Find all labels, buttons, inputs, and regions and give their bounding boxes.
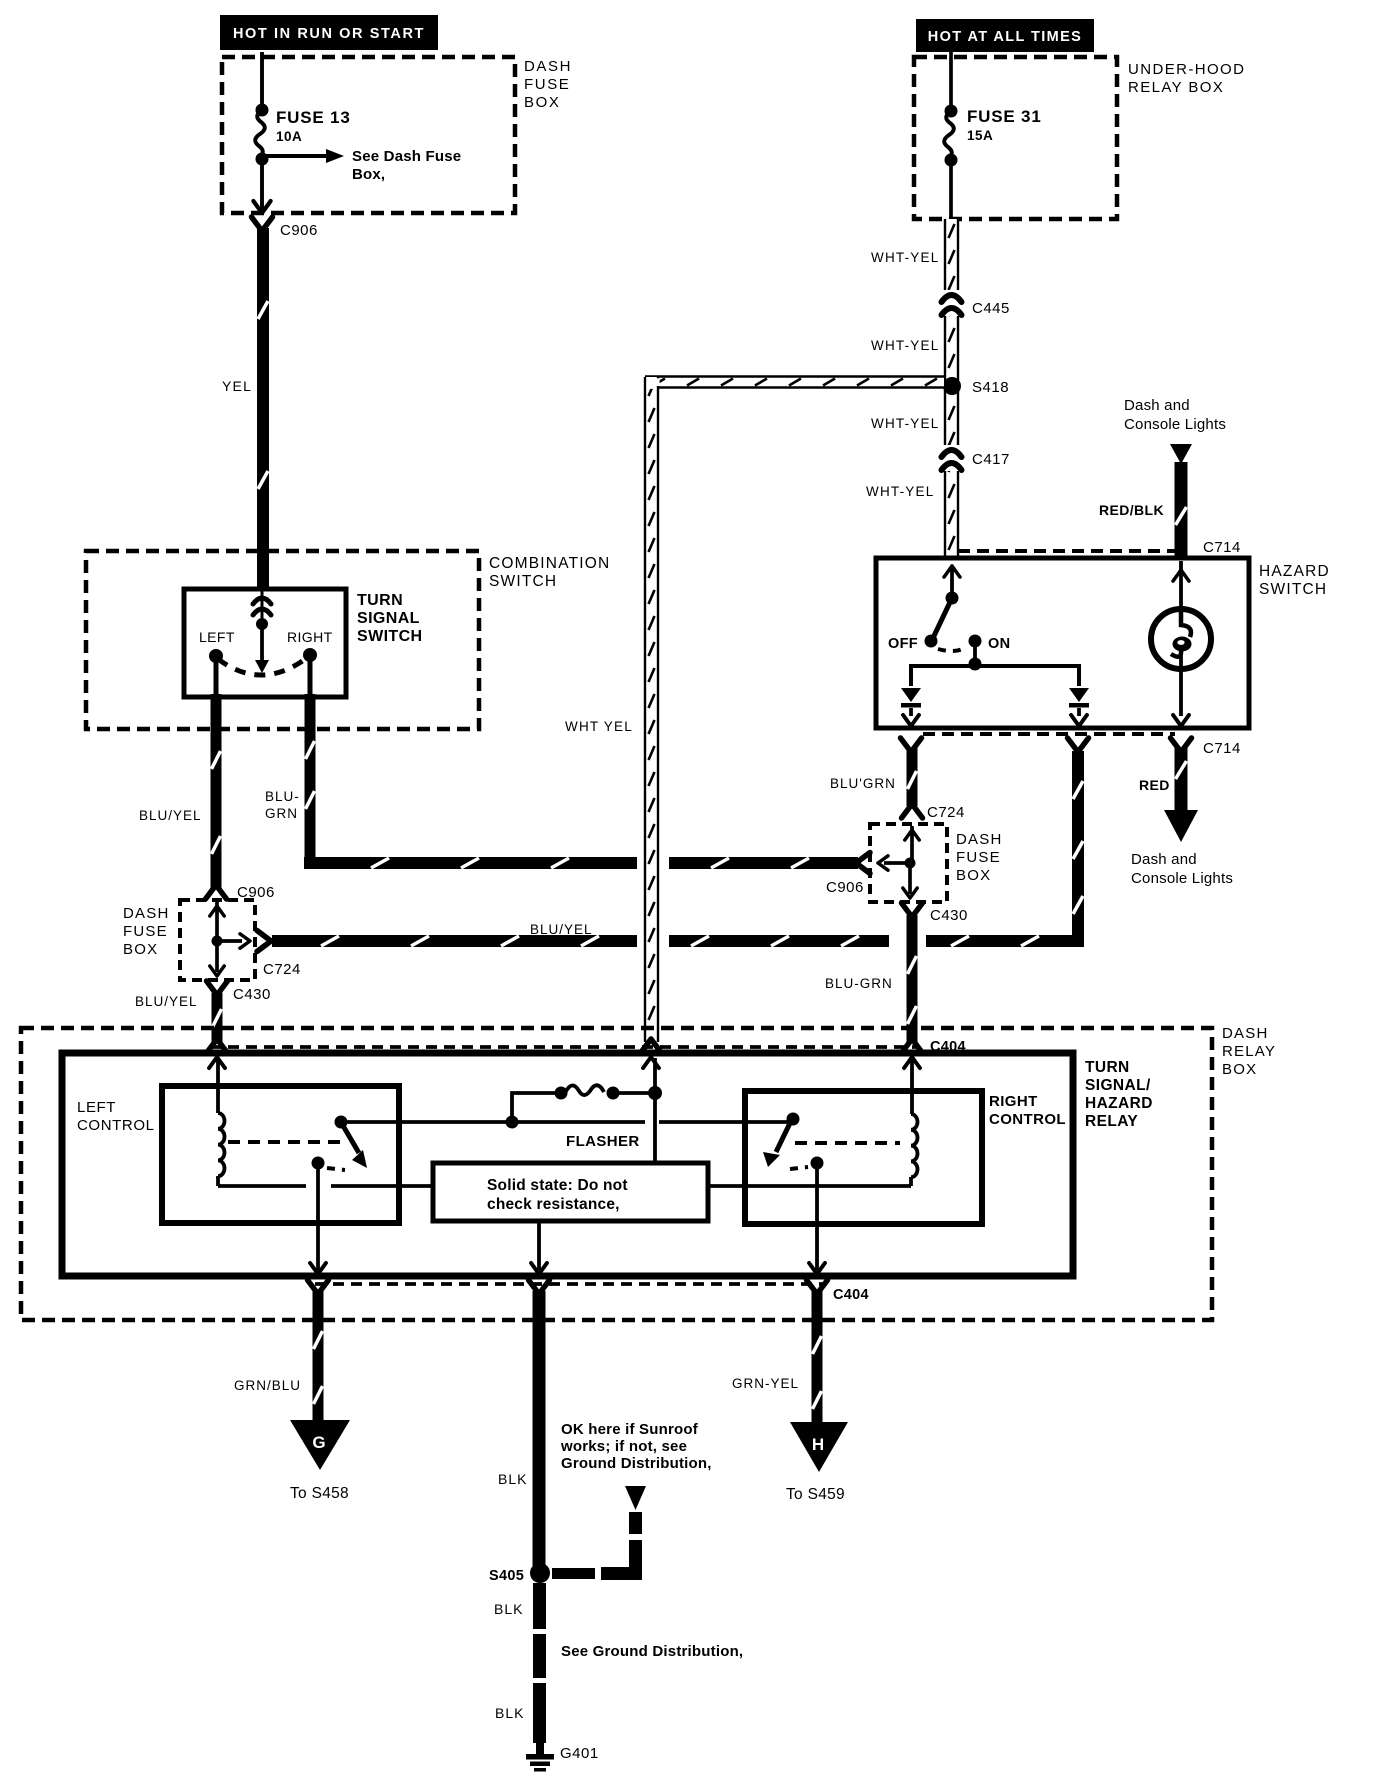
wiper arm [260, 624, 264, 662]
wire left output [316, 1163, 320, 1270]
svg-text:BLU/YEL: BLU/YEL [530, 922, 593, 937]
svg-text:ON: ON [988, 636, 1010, 652]
svg-text:DASH: DASH [1222, 1025, 1268, 1042]
svg-text:RIGHT: RIGHT [287, 629, 333, 645]
svg-text:BLK: BLK [498, 1471, 527, 1487]
left relay coil [216, 1058, 220, 1113]
right armature [787, 1113, 800, 1126]
svg-text:HAZARD: HAZARD [1085, 1095, 1153, 1112]
solid state box [433, 1163, 708, 1221]
connector C906 (right box) [856, 853, 870, 874]
connector C430 [207, 981, 228, 995]
svg-text:C445: C445 [972, 300, 1010, 317]
svg-text:10A: 10A [276, 129, 302, 144]
svg-text:TURN: TURN [357, 592, 403, 609]
svg-text:WHT-YEL: WHT-YEL [866, 484, 934, 499]
svg-text:FLASHER: FLASHER [566, 1133, 640, 1150]
dash relay box (dashed) [21, 1028, 1212, 1320]
wire ground output [537, 1221, 541, 1270]
wire WHT-YEL (under-hood to hazard) [945, 219, 958, 556]
svg-text:C404: C404 [930, 1039, 966, 1055]
svg-text:HOT IN RUN OR START: HOT IN RUN OR START [233, 26, 425, 42]
svg-text:BOX: BOX [1222, 1061, 1257, 1078]
svg-text:BOX: BOX [956, 867, 991, 884]
svg-text:H: H [812, 1435, 824, 1454]
fuse F31 15A [945, 105, 958, 118]
svg-text:S405: S405 [489, 1568, 524, 1584]
svg-text:OK here if Sunroof: OK here if Sunroof [561, 1421, 699, 1438]
svg-text:LEFT: LEFT [199, 629, 235, 645]
svg-text:CONTROL: CONTROL [77, 1117, 155, 1134]
wire BLK to S405 [533, 1291, 546, 1567]
node S405 [530, 1563, 550, 1583]
left armature linkage (dashed) [228, 1140, 340, 1144]
svg-text:DASH: DASH [956, 831, 1002, 848]
connector C714 (bottom, dashed) [923, 732, 1175, 736]
svg-text:FUSE: FUSE [123, 923, 168, 940]
wire RED to dash/console lights [1175, 748, 1188, 812]
wire BLU-GRN horizontal run [304, 857, 637, 869]
wire BLU/YEL horizontal run [272, 935, 637, 947]
node LEFT contact [209, 649, 223, 663]
svg-text:SIGNAL: SIGNAL [357, 610, 420, 627]
svg-text:FUSE 13: FUSE 13 [276, 108, 351, 127]
svg-text:C430: C430 [930, 907, 968, 924]
svg-text:HAZARD: HAZARD [1259, 563, 1330, 580]
svg-text:C430: C430 [233, 986, 271, 1003]
left control box [162, 1086, 399, 1223]
svg-text:BLU'GRN: BLU'GRN [830, 776, 896, 791]
svg-text:FUSE: FUSE [524, 76, 570, 93]
turn signal switch internals [261, 589, 264, 624]
svg-text:BLU-: BLU- [265, 789, 300, 804]
wire WHT-YEL branch to flasher (horizontal + vertical) [645, 377, 944, 388]
svg-text:CONTROL: CONTROL [989, 1111, 1066, 1128]
wire hazard mid branch vertical [1072, 751, 1084, 947]
svg-text:S418: S418 [972, 379, 1009, 396]
svg-text:DASH: DASH [123, 905, 169, 922]
svg-text:To S458: To S458 [290, 1485, 349, 1502]
svg-text:C714: C714 [1203, 740, 1241, 757]
combination switch box [86, 551, 479, 729]
destination triangle H [790, 1422, 848, 1472]
svg-text:HOT AT ALL TIMES: HOT AT ALL TIMES [928, 29, 1083, 45]
svg-text:Box,: Box, [352, 166, 385, 183]
armature common rail [341, 1120, 645, 1124]
svg-text:SWITCH: SWITCH [357, 628, 423, 645]
wire RED/BLK [1175, 462, 1188, 556]
see dash fuse box arrow [262, 154, 328, 158]
wire BLK (dashed run) [533, 1583, 546, 1629]
wire fuse13 to C906 [260, 159, 264, 212]
svg-text:C417: C417 [972, 451, 1010, 468]
svg-text:GRN: GRN [265, 806, 298, 821]
svg-text:OFF: OFF [888, 636, 918, 652]
svg-text:SIGNAL/: SIGNAL/ [1085, 1077, 1151, 1094]
svg-text:FUSE: FUSE [956, 849, 1001, 866]
svg-text:BLU-GRN: BLU-GRN [825, 976, 893, 991]
wire WHT-YEL inside relay [653, 1058, 657, 1163]
destination triangle G [290, 1420, 350, 1470]
wire BLU-GRN into relay box [907, 915, 918, 1042]
wiper travel arc (dashed) [218, 657, 308, 675]
wire GRN/BLU [313, 1291, 324, 1422]
svg-text:BLU/YEL: BLU/YEL [139, 808, 202, 823]
dash fuse box (left small) [180, 900, 255, 980]
wire BLU/YEL into relay box [212, 993, 223, 1042]
turn signal / hazard relay box [62, 1053, 1073, 1276]
connector C430 (right box) [902, 903, 923, 917]
svg-text:WHT-YEL: WHT-YEL [871, 338, 939, 353]
svg-text:See Dash Fuse: See Dash Fuse [352, 148, 461, 165]
svg-text:RELAY: RELAY [1222, 1043, 1276, 1060]
entry arrows into relay [207, 1039, 228, 1053]
connector C404 (bottom, dashed) [315, 1282, 825, 1286]
svg-text:C906: C906 [237, 884, 275, 901]
svg-text:Console Lights: Console Lights [1131, 870, 1233, 887]
wire from hot bus to fuse 13 [260, 52, 264, 110]
svg-text:RED: RED [1139, 777, 1170, 793]
svg-text:FUSE 31: FUSE 31 [967, 107, 1042, 126]
svg-text:C724: C724 [927, 804, 965, 821]
node OFF [925, 635, 938, 648]
svg-text:RELAY: RELAY [1085, 1113, 1138, 1130]
node ON [969, 635, 982, 648]
svg-text:SWITCH: SWITCH [489, 573, 557, 590]
dash fuse box (top left) [222, 57, 515, 213]
node RIGHT contact [303, 648, 317, 662]
ground G401 [536, 1742, 544, 1755]
svg-text:BLK: BLK [494, 1601, 523, 1617]
dash fuse box (right small) [870, 824, 947, 902]
svg-text:YEL: YEL [222, 378, 252, 394]
connector C714 (top, dashed) [958, 549, 1175, 553]
turn signal switch box [184, 589, 346, 697]
hazard switch toggle [950, 566, 954, 596]
connector C404 (top, dashed) [210, 1045, 918, 1049]
svg-text:UNDER-HOOD: UNDER-HOOD [1128, 61, 1245, 78]
right control box [745, 1091, 982, 1224]
svg-text:SWITCH: SWITCH [1259, 581, 1327, 598]
wire right output [815, 1163, 819, 1270]
node S418 [943, 377, 961, 395]
svg-text:WHT-YEL: WHT-YEL [871, 250, 939, 265]
wire LEFT output [214, 656, 219, 697]
flasher unit [506, 1116, 519, 1129]
hazard internal bus [911, 666, 1079, 686]
hazard switch box [876, 558, 1249, 728]
power label HOT AT ALL TIMES [916, 19, 1094, 52]
svg-text:To S459: To S459 [786, 1486, 845, 1503]
svg-text:BOX: BOX [123, 941, 158, 958]
svg-text:Ground Distribution,: Ground Distribution, [561, 1455, 712, 1472]
hazard left contact [901, 688, 921, 702]
svg-text:GRN-YEL: GRN-YEL [732, 1376, 799, 1391]
hazard right contact [1069, 688, 1089, 702]
svg-text:C906: C906 [826, 879, 864, 896]
right armature linkage (dashed) [795, 1141, 900, 1145]
svg-text:C906: C906 [280, 222, 318, 239]
svg-text:Console Lights: Console Lights [1124, 416, 1226, 433]
wire GRN-YEL [812, 1291, 823, 1422]
svg-text:Dash and: Dash and [1131, 851, 1197, 868]
wire BLU-GRN from hazard [907, 748, 918, 806]
svg-text:C724: C724 [263, 961, 301, 978]
svg-text:DASH: DASH [524, 58, 572, 75]
svg-text:BLU/YEL: BLU/YEL [135, 994, 198, 1009]
wire RIGHT output [308, 655, 313, 697]
svg-text:TURN: TURN [1085, 1059, 1130, 1076]
connector C724 (right box) [902, 804, 923, 818]
fuse box internal wiring [910, 826, 914, 863]
wire solid state to right coil [708, 1184, 911, 1188]
svg-text:15A: 15A [967, 128, 993, 143]
wire YEL [257, 228, 269, 590]
svg-text:C714: C714 [1203, 539, 1241, 556]
connector C417 [941, 445, 963, 471]
svg-text:GRN/BLU: GRN/BLU [234, 1378, 301, 1393]
svg-text:RED/BLK: RED/BLK [1099, 502, 1164, 518]
wire to fuse 31 [949, 52, 953, 111]
svg-text:BLK: BLK [495, 1705, 524, 1721]
fuse F13 10A [256, 104, 269, 117]
svg-text:LEFT: LEFT [77, 1099, 116, 1116]
wire sunroof branch [629, 1512, 642, 1534]
connector C724 [257, 931, 271, 952]
svg-text:RIGHT: RIGHT [989, 1093, 1038, 1110]
svg-text:WHT YEL: WHT YEL [565, 719, 633, 734]
svg-text:Solid state: Do not: Solid state: Do not [487, 1177, 628, 1194]
svg-text:WHT-YEL: WHT-YEL [871, 416, 939, 431]
svg-text:BOX: BOX [524, 94, 560, 111]
wire coil to solid-state box [218, 1184, 306, 1188]
connector C906 [252, 217, 273, 231]
under-hood relay box [914, 57, 1117, 219]
connector C445 [941, 290, 963, 316]
svg-text:G: G [312, 1433, 325, 1452]
power label HOT IN RUN OR START [220, 15, 438, 50]
fuse box internal wiring [215, 902, 219, 941]
svg-text:RELAY BOX: RELAY BOX [1128, 79, 1224, 96]
hazard indicator lamp [1179, 561, 1183, 609]
svg-text:COMBINATION: COMBINATION [489, 555, 610, 572]
connector C906 (left dash fuse box) [206, 885, 227, 899]
svg-text:works; if not, see: works; if not, see [560, 1438, 687, 1455]
svg-text:See Ground Distribution,: See Ground Distribution, [561, 1643, 743, 1660]
right relay coil [910, 1058, 914, 1114]
svg-text:Dash and: Dash and [1124, 397, 1190, 414]
svg-text:C404: C404 [833, 1287, 869, 1303]
svg-text:check resistance,: check resistance, [487, 1196, 620, 1213]
svg-text:G401: G401 [560, 1745, 599, 1762]
left armature [335, 1116, 348, 1129]
